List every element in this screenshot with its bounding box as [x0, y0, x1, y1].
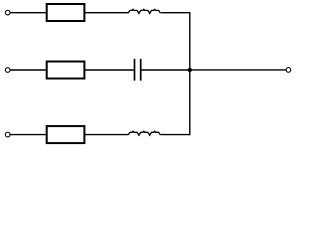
node A (junction dot) — [188, 68, 192, 72]
inductor L1 — [128, 9, 160, 14]
resistor R3 — [47, 126, 85, 143]
wire — [10, 134, 46, 136]
wire — [10, 12, 46, 14]
terminal T4 (right output) — [286, 68, 291, 73]
wire — [142, 69, 190, 71]
resistor R1 — [47, 4, 85, 21]
wire — [84, 134, 128, 136]
inductor L2 — [128, 131, 160, 136]
wire — [84, 12, 128, 14]
capacitor C1 — [135, 59, 141, 81]
wire (vertical bus) — [189, 13, 191, 135]
wire — [84, 69, 133, 71]
wire — [161, 12, 191, 14]
terminal T1 (top-left input) — [5, 10, 10, 15]
terminal T3 (bottom-left input) — [5, 132, 10, 137]
wire — [10, 69, 46, 71]
resistor R2 — [47, 62, 85, 79]
wire — [190, 69, 286, 71]
wire — [161, 134, 191, 136]
terminal T2 (middle-left input) — [5, 68, 10, 73]
